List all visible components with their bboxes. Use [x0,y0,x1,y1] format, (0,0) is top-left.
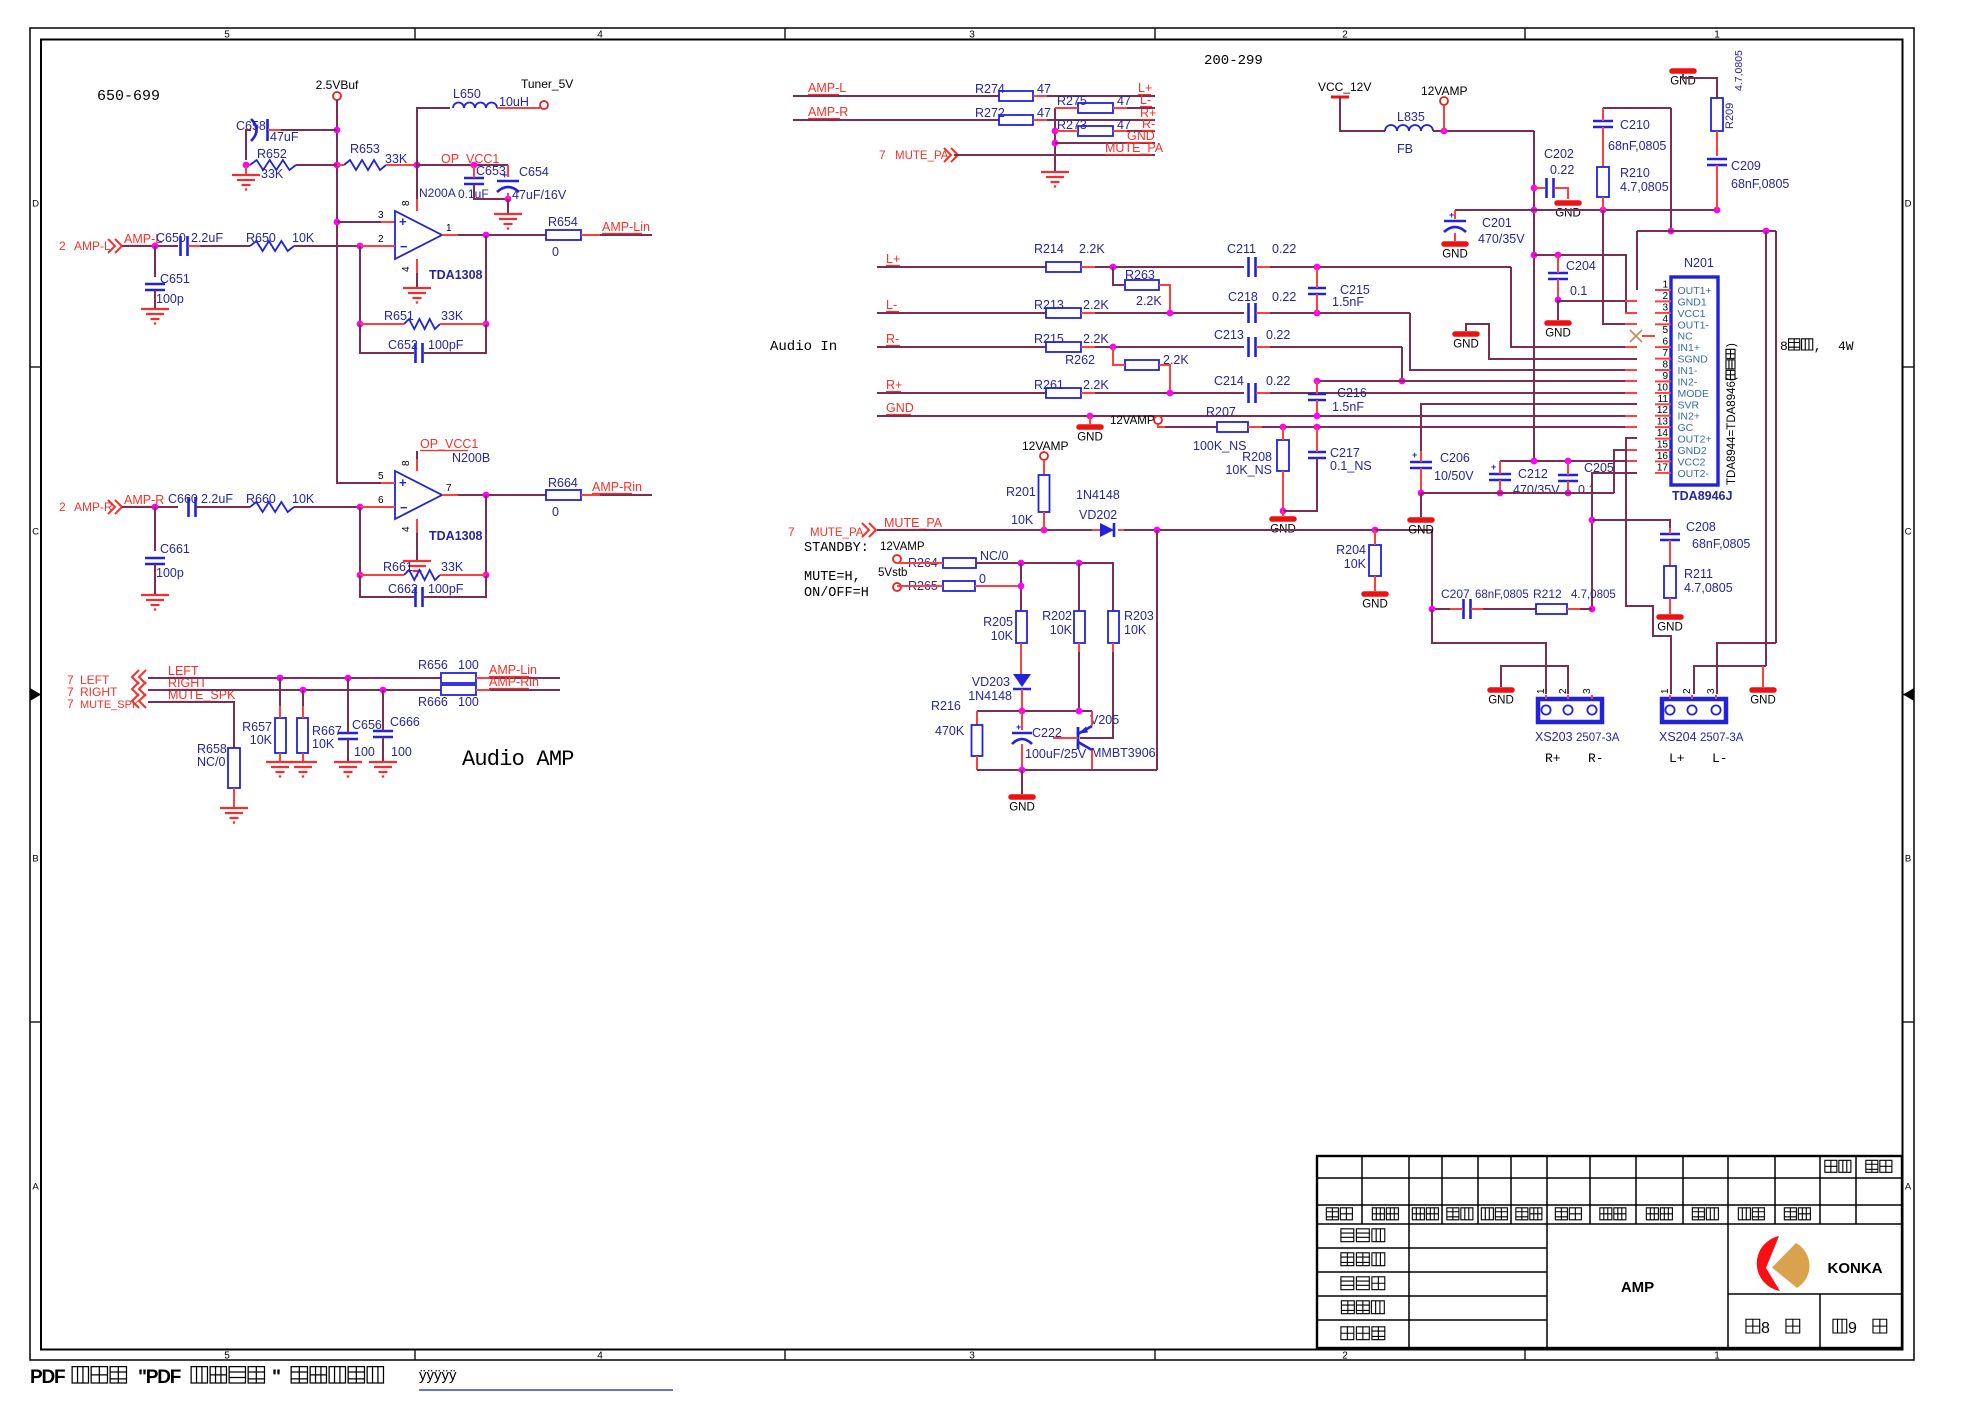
resistor R213 [1034,298,1244,318]
wire OUT2+ pin14 [1626,438,1671,694]
resistor R216 [931,699,983,770]
resistor R205 [983,611,1027,674]
capacitor C651 [145,246,190,308]
wire R- row [877,346,1046,348]
resistor R209 [1711,50,1745,156]
svg-text:TDA8944=TDA8946(: TDA8944=TDA8946( [1726,377,1738,485]
wire 2.5VBuf bus [334,100,395,483]
svg-text:R+: R+ [1545,751,1561,766]
svg-text:−: − [400,239,408,254]
svg-text:R656: R656 [418,658,448,672]
wire MUTE_PA top [954,154,1155,156]
svg-text:C654: C654 [519,165,549,179]
svg-text:−: − [400,500,408,515]
wire XS204 pin2 [1694,666,1766,694]
svg-text:1: 1 [446,223,452,234]
resistor R264 [897,549,1021,570]
svg-text:,: , [1814,339,1822,354]
svg-text:R654: R654 [548,215,578,229]
svg-text:GND: GND [1750,695,1776,707]
svg-text:GND: GND [1657,622,1683,634]
svg-text:N200B: N200B [452,451,490,465]
svg-text:+: + [1016,722,1021,732]
svg-text:C: C [1905,527,1912,538]
svg-text:100p: 100p [156,566,184,580]
transistor V205 [1053,711,1156,770]
power symbol VCC_12V [1318,80,1385,131]
power ground XS204 [1750,666,1776,707]
svg-text:4: 4 [1662,314,1668,325]
power terminal 12VAMP R201 [1022,439,1068,475]
svg-text:0.1: 0.1 [1570,284,1587,298]
capacitor C653 [458,164,511,202]
svg-text:4.7,0805: 4.7,0805 [1733,50,1745,91]
svg-text:100p: 100p [156,292,184,306]
svg-text:Tuner_5V: Tuner_5V [521,77,573,91]
svg-text:Audio AMP: Audio AMP [462,747,574,772]
svg-text:C216: C216 [1337,386,1367,400]
svg-text:C214: C214 [1214,374,1244,388]
node label 650-699 [97,88,160,105]
wire NC/0 net [1018,560,1113,611]
svg-text:VD202: VD202 [1079,508,1117,522]
svg-text:GND: GND [1362,599,1388,611]
svg-text:NC/0: NC/0 [980,549,1009,563]
node OP_VCC1 [417,152,508,168]
svg-text:0.22: 0.22 [1272,290,1296,304]
wire MUTE_SPK [148,702,234,748]
svg-text:AMP-L: AMP-L [808,81,846,95]
svg-text:MUTE_PA: MUTE_PA [1105,141,1164,155]
wire AMP-R input [122,504,178,511]
diode VD203 [968,674,1031,711]
svg-text:1: 1 [1714,30,1720,41]
svg-text:ÿÿÿÿÿ: ÿÿÿÿÿ [419,1367,457,1384]
capacitor C222 [1012,711,1087,770]
svg-text:C661: C661 [160,542,190,556]
capacitor C206 [1410,450,1474,496]
power ground C204 [1545,323,1571,340]
svg-text:33K: 33K [385,152,408,166]
svg-text:RIGHT: RIGHT [80,685,118,699]
svg-text:OUT1-: OUT1- [1678,319,1710,331]
wire N200B output [442,492,546,499]
svg-text:17: 17 [1657,462,1669,473]
node OP_VCC1 at N200B [417,437,478,459]
wire RIGHT [148,687,441,694]
svg-text:+: + [502,170,507,180]
sheet entry AMP-R [59,500,122,514]
wire R+ row [877,392,1046,394]
capacitor C650 [156,231,250,256]
wire VCC rail [1455,207,1720,214]
svg-text:0.22: 0.22 [1266,328,1290,342]
resistor R262 [1065,347,1189,393]
pin 11 SVR of N201 [1655,394,1700,412]
pin 8 of N200B [401,460,412,466]
resistor R274 [975,82,1155,101]
svg-text:2507-3A: 2507-3A [1576,732,1620,744]
svg-text:3: 3 [969,1351,975,1362]
wire pin4 N200A [416,259,418,287]
svg-text:MUTE_PA: MUTE_PA [884,516,943,530]
ground top-mini [1041,172,1069,187]
resistor R201 [1006,475,1050,530]
svg-text:16: 16 [1657,451,1669,462]
svg-text:VCC2: VCC2 [1678,456,1706,468]
svg-text:C208: C208 [1686,520,1716,534]
svg-text:R261: R261 [1034,378,1064,392]
svg-text:3: 3 [1662,302,1668,313]
capacitor C218 [1228,290,1410,323]
svg-text:2: 2 [378,234,384,245]
power ground XS203 [1488,666,1568,707]
svg-text:12VAMP: 12VAMP [1022,439,1068,453]
resistor R210 [1597,166,1669,210]
resistor R204 [1336,530,1381,591]
svg-text:47uF: 47uF [270,130,299,144]
sheet entry MUTE_PA top [879,148,958,162]
wire mute bottom rail [977,530,1157,794]
svg-text:A: A [1905,1182,1912,1193]
svg-text:15: 15 [1657,440,1669,451]
sheet entry MUTE_PA [788,523,876,539]
capacitor C216 [1308,381,1367,416]
pin 3 of N200A [378,210,384,221]
svg-text:XS203: XS203 [1535,730,1573,744]
svg-text:0: 0 [552,505,559,519]
svg-text:9: 9 [1848,1320,1857,1337]
resistor R661 [360,560,486,580]
svg-text:XS204: XS204 [1659,730,1697,744]
svg-text:R210: R210 [1620,166,1650,180]
svg-text:4: 4 [597,30,603,41]
svg-text:47uF/16V: 47uF/16V [512,188,567,202]
wire R210 to pin4 [1603,210,1637,324]
pin 5 NC of N201 [1662,325,1693,343]
svg-text:L+: L+ [886,252,900,266]
svg-text:IN1-: IN1- [1678,365,1698,377]
footer PDF notice [30,1367,383,1388]
node AMP-Rin out [489,675,539,689]
svg-text:FB: FB [1397,142,1413,156]
svg-text:R207: R207 [1206,405,1236,419]
resistor R657 [242,678,286,761]
svg-text:R213: R213 [1034,298,1064,312]
svg-text:12VAMP: 12VAMP [880,541,925,553]
wire OP_VCC1 to L650 [417,108,450,165]
node MUTE_PA [884,516,943,530]
ground at R667 [289,762,317,777]
wire XS203 pin1 feed [1432,609,1546,694]
power ground R204 [1362,594,1388,611]
capacitor C214 [1214,374,1290,403]
svg-text:C201: C201 [1482,216,1512,230]
power terminal 2.5VBuf [316,78,359,100]
sheet entry AMP-L [59,239,122,253]
svg-text:R658: R658 [197,742,227,756]
svg-text:R208: R208 [1242,450,1272,464]
node R+ [886,378,902,392]
connector XS203 [1535,688,1620,766]
svg-text:PDF: PDF [30,1367,65,1388]
wire VCC2 rail [1500,458,1637,465]
svg-text:MMBT3906: MMBT3906 [1091,746,1156,760]
svg-text:10K: 10K [312,737,335,751]
power terminal 5Vstb [878,567,907,591]
wire pin8 N200B [416,459,418,471]
connector XS204 [1659,688,1744,766]
pin 17 OUT2- of N201 [1655,462,1710,480]
wire SGND pin7 [1466,324,1637,359]
capacitor C652 [388,338,464,363]
resistor R653 [337,142,420,170]
svg-text:GND: GND [1488,695,1514,707]
node label 200-299 [1204,53,1263,69]
resistor R203 [1080,609,1154,738]
capacitor C656 [338,678,382,761]
ground at C651 [141,309,169,324]
svg-text:7: 7 [67,697,74,711]
svg-text:68nF,0805: 68nF,0805 [1475,589,1529,601]
svg-text:R209: R209 [1724,103,1736,129]
svg-text:AMP-Rin: AMP-Rin [489,675,539,689]
svg-text:33K: 33K [261,167,284,181]
logo KONKA [1757,1236,1883,1291]
svg-text:2: 2 [1342,1351,1348,1362]
svg-text:8: 8 [1780,339,1788,354]
svg-text:R215: R215 [1034,332,1064,346]
svg-text:R-: R- [886,332,899,346]
svg-text:L-: L- [886,298,897,312]
capacitor C658 [236,119,337,160]
svg-text:R272: R272 [975,106,1005,120]
svg-text:MUTE=H,: MUTE=H, [804,570,861,585]
node AMP-R [124,493,164,507]
svg-text:8: 8 [1662,360,1668,371]
resistor R667 [297,690,342,761]
svg-text:8: 8 [401,460,412,466]
svg-text:12: 12 [1657,405,1669,416]
svg-text:+: + [1412,450,1417,460]
svg-text:NC: NC [1678,331,1694,343]
ground at R657 [266,762,294,777]
svg-text:MUTE_PA: MUTE_PA [810,527,864,539]
pin 8 of N200A [401,200,412,206]
svg-text:STANDBY:: STANDBY: [804,541,869,556]
svg-text:Audio In: Audio In [770,339,837,355]
svg-text:4W: 4W [1838,339,1854,354]
resistor R275 [1055,94,1155,113]
capacitor C666 [373,690,420,761]
sheet entry LEFT [67,670,146,687]
svg-text:650-699: 650-699 [97,88,160,105]
node AMP-L top [808,81,846,95]
node AMP-Lin out [489,663,537,677]
wire bus to pin3 [337,221,395,223]
svg-text:R666: R666 [418,695,448,709]
svg-text:4: 4 [597,1351,603,1362]
svg-text:GC: GC [1678,422,1694,434]
svg-text:AMP-L: AMP-L [74,239,111,253]
resistor R656 [418,658,560,683]
svg-text:9: 9 [1662,371,1668,382]
svg-text:"PDF: "PDF [138,1367,181,1388]
inductor L650 [453,87,540,109]
wire AMP-L input [122,243,178,250]
node R- top [1142,117,1155,131]
svg-text:R273: R273 [1057,118,1087,132]
svg-text:AMP-R: AMP-R [808,105,848,119]
svg-text:2.2K: 2.2K [1083,332,1109,346]
capacitor C215 [1308,267,1370,313]
wire AMP-L top [793,95,999,97]
svg-text:AMP-R: AMP-R [74,500,113,514]
svg-text:R275: R275 [1057,94,1087,108]
svg-text:TDA8946J: TDA8946J [1672,489,1732,503]
svg-text:MUTE_PA: MUTE_PA [895,150,949,162]
capacitor C212 [1489,461,1560,497]
svg-text:4.7,0805: 4.7,0805 [1684,581,1733,595]
svg-text:2.2K: 2.2K [1083,378,1109,392]
pin 7 SGND of N201 [1655,348,1708,366]
resistor R660 [246,492,395,512]
svg-text:2: 2 [59,500,66,514]
node L+ [886,252,900,266]
ground at C654 [494,199,522,229]
svg-text:8: 8 [401,200,412,206]
svg-text:5: 5 [1662,325,1668,336]
sheet entry MUTE_SPK [67,694,146,711]
svg-text:C210: C210 [1620,118,1650,132]
svg-text:100: 100 [458,695,479,709]
wire top-mini vertical [1052,108,1059,171]
ground at N200A pin4 [403,288,431,303]
wire pin5 N200B [381,482,395,484]
svg-text:N200A: N200A [419,186,456,200]
svg-text:GND: GND [1077,432,1103,444]
svg-text:0: 0 [979,572,986,586]
ground at N200B pin4 [403,561,431,576]
svg-text:C660: C660 [168,492,198,506]
wire MUTE_PA row [877,527,1432,609]
wire L+ row [877,266,1046,268]
wire GND top [1055,142,1155,144]
node GND top [1127,129,1155,143]
pin 8 IN1- of N201 [1655,360,1698,378]
svg-text:7: 7 [788,525,795,539]
pin 6 of N200B [378,495,384,506]
svg-text:OUT2-: OUT2- [1678,468,1710,480]
wire SVR pin11 [1421,404,1637,451]
ground at C656 [334,762,362,777]
power terminal 12VAMP top [1421,84,1467,131]
svg-text:R653: R653 [350,142,380,156]
svg-text:7: 7 [1662,348,1668,359]
capacitor C210 [1593,108,1666,167]
svg-text:5: 5 [378,471,384,482]
resistor R265 [897,572,1021,593]
svg-text:C222: C222 [1032,726,1062,740]
capacitor C208 [1592,520,1750,566]
svg-text:10K: 10K [1124,623,1147,637]
svg-text:C202: C202 [1544,147,1574,161]
power ground SGND [1453,334,1479,351]
svg-text:6: 6 [1662,337,1668,348]
resistor R214 [1034,242,1244,272]
svg-text:3: 3 [1582,688,1593,694]
svg-text:+: + [1449,210,1454,220]
svg-text:R-: R- [1588,751,1604,766]
svg-text:4: 4 [401,266,412,272]
node AMP-Lin [602,220,650,234]
svg-text:1: 1 [1536,688,1547,694]
svg-text:2.2uF: 2.2uF [201,492,233,506]
svg-text:D: D [1905,199,1912,210]
node LEFT [168,664,199,678]
svg-text:1N4148: 1N4148 [968,689,1012,703]
svg-text:R657: R657 [242,720,272,734]
svg-text:C207: C207 [1441,587,1470,601]
capacitor C209 [1707,159,1789,210]
svg-text:R664: R664 [548,476,578,490]
svg-text:NC/0: NC/0 [197,755,226,769]
resistor R272 [975,106,1155,125]
svg-text:C204: C204 [1566,259,1596,273]
capacitor C660 [168,492,250,517]
svg-text:AMP-R: AMP-R [124,493,164,507]
svg-text:VD203: VD203 [972,675,1010,689]
svg-text:0.22: 0.22 [1550,163,1574,177]
svg-text:2: 2 [1342,30,1348,41]
svg-text:10: 10 [1657,382,1669,393]
svg-text:100: 100 [391,745,412,759]
svg-text:11: 11 [1658,394,1669,405]
svg-text:R201: R201 [1006,485,1036,499]
pin 1 OUT1+ of N201 [1655,280,1712,298]
power ground R209 top [1670,71,1717,98]
resistor R654 [546,215,652,259]
svg-text:200-299: 200-299 [1204,53,1263,69]
svg-text:470/35V: 470/35V [1513,483,1560,497]
pin 15 GND2 of N201 [1655,440,1707,458]
note STANDBY [804,541,869,556]
capacitor C217 [1283,427,1372,511]
ground at C666 [369,762,397,777]
IC N201 TDA8946J [1671,256,1732,503]
svg-text:470K: 470K [935,724,965,738]
title AMP [1621,1279,1654,1296]
wire gnd rail [1421,450,1637,493]
svg-text:GND1: GND1 [1678,296,1707,308]
node R- [886,332,900,346]
svg-text:0.22: 0.22 [1266,374,1290,388]
svg-text:AMP: AMP [1621,1279,1654,1296]
title block labels [1326,1160,1892,1339]
diode VD202 [1076,488,1124,537]
svg-text:47: 47 [1037,82,1051,96]
svg-text:R214: R214 [1034,242,1064,256]
wire L- row [877,312,1046,314]
svg-text:10uH: 10uH [499,95,529,109]
pin 10 MODE of N201 [1655,382,1709,400]
svg-text:C209: C209 [1731,159,1761,173]
sheet number [1746,1319,1887,1337]
wire XS204 pin3 [1717,643,1776,694]
wire GND1 row [1558,300,1637,320]
capacitor C654 [497,165,567,202]
pin 2 of N200A [378,234,384,245]
